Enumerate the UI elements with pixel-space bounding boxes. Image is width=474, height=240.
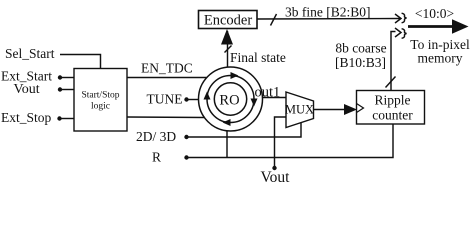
wire Vout bottom up to MUX input: [275, 117, 287, 168]
svg-text:Vout: Vout: [14, 82, 40, 97]
rotation ring arcs: [207, 76, 254, 123]
node 2D/3D: [184, 135, 188, 139]
svg-text:MUX: MUX: [285, 103, 314, 117]
wire final state from RO to encoder: [227, 31, 229, 67]
wire Ext_Start: [60, 77, 74, 79]
merge brace bottom: [402, 29, 407, 39]
svg-text:RO: RO: [219, 92, 239, 108]
node R: [184, 155, 188, 159]
arrowhead final state (solid, up): [221, 29, 233, 45]
wire R line to ripple counter: [187, 124, 394, 158]
rotation arrowhead top (pointing right): [231, 72, 239, 79]
node TUNE: [184, 97, 188, 101]
svg-text:[B10:B3]: [B10:B3]: [335, 55, 386, 70]
svg-text:R: R: [152, 150, 161, 165]
arrowhead MUX output (solid): [344, 104, 357, 115]
svg-text:Encoder: Encoder: [204, 13, 252, 29]
node Ext_Start: [58, 75, 62, 79]
clock chevron: [357, 104, 364, 113]
svg-text:Ripple: Ripple: [375, 93, 411, 108]
wire 2D/3D select line: [187, 123, 302, 137]
wire TUNE into RO: [187, 99, 200, 101]
mux U-MUX trapezoid: [285, 92, 314, 128]
wire EN_TDC from box to RO: [127, 77, 207, 79]
svg-text:EN_TDC: EN_TDC: [141, 61, 193, 76]
wire 3b fine bus from encoder to merge: [257, 18, 400, 21]
svg-text:logic: logic: [91, 102, 110, 112]
merge brace top: [402, 13, 407, 23]
svg-text:TUNE: TUNE: [147, 91, 183, 106]
rotation arrowhead left (pointing up): [204, 92, 211, 100]
wire thick output bus to memory: [408, 25, 454, 28]
bus slash on 3b fine wire: [271, 14, 277, 26]
rotation arrowhead bottom (pointing left): [223, 119, 231, 126]
arrowhead output bus (solid): [452, 19, 469, 33]
encoder U-ENC box: [199, 11, 258, 29]
svg-text:2D/ 3D: 2D/ 3D: [136, 129, 176, 144]
wire MUX output to ripple counter: [314, 109, 347, 111]
wire start/stop control from box to RO: [127, 116, 205, 119]
svg-text:3b fine [B2:B0]: 3b fine [B2:B0]: [285, 5, 371, 20]
node Ext_Stop: [57, 116, 61, 120]
arrowhead 8b coarse into merge: [395, 28, 401, 37]
bus slash on final state wire: [225, 46, 232, 53]
wire RO bottom to R line: [226, 131, 228, 158]
svg-text:8b coarse: 8b coarse: [335, 41, 386, 56]
svg-text:Vout: Vout: [260, 169, 290, 186]
wire Vout left: [60, 89, 74, 91]
svg-text:out1: out1: [255, 85, 281, 101]
wire Sel_Start into box top: [60, 55, 101, 69]
svg-text:Ext_Stop: Ext_Stop: [1, 110, 52, 125]
arrowhead 3b fine into merge: [395, 14, 401, 23]
ripple counter box: [357, 91, 425, 125]
node Vout left: [58, 87, 62, 91]
svg-text:Start/Stop: Start/Stop: [81, 91, 119, 101]
ring oscillator RO outer circle: [199, 67, 263, 131]
rotation arrowhead right (pointing down): [251, 99, 258, 107]
svg-text:memory: memory: [418, 50, 463, 65]
wire 8b coarse from ripple counter up to merge: [391, 32, 396, 91]
svg-text:Sel_Start: Sel_Start: [5, 46, 55, 61]
svg-text:<10:0>: <10:0>: [415, 6, 454, 21]
wire out1 from RO to MUX: [263, 97, 287, 99]
bus slash on 8b coarse wire: [386, 77, 396, 88]
svg-text:Final state: Final state: [230, 50, 286, 65]
node Vout bottom: [272, 166, 276, 170]
ring oscillator RO inner circle: [214, 83, 246, 115]
svg-text:counter: counter: [372, 108, 413, 123]
start/stop logic box: [74, 69, 127, 132]
wire Ext_Stop: [60, 118, 75, 120]
